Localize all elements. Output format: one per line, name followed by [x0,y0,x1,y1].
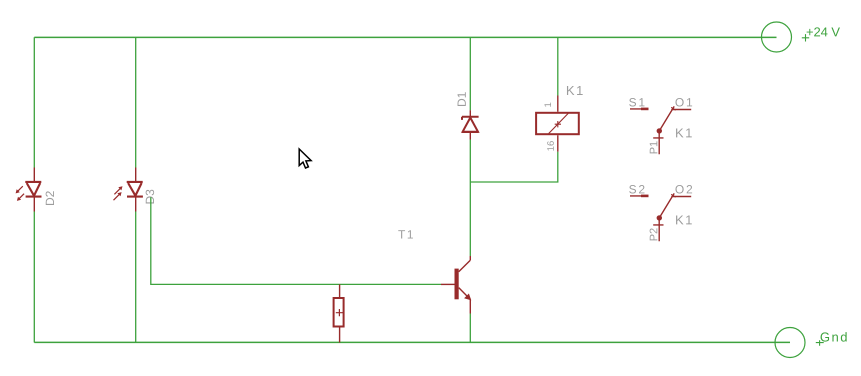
wire D2 anode [33,37,35,167]
supply Gnd label [821,332,847,342]
diode D1 [462,110,479,139]
label S2 [629,185,644,193]
label K1 contact 2 [676,215,692,224]
switch K1b lever [657,193,676,220]
supply Gnd origin cross [816,340,824,346]
switch O1 contact [671,109,691,111]
mouse cursor [299,149,311,168]
label K1 relay [567,86,583,95]
label O2 [675,185,692,193]
transistor T1 [441,256,471,314]
relay coil K1 [536,96,579,152]
wire relay pin1 from rail [557,37,559,95]
label K1 contact 1 [676,128,692,137]
label D3 [146,190,154,204]
wire emitter to Gnd rail [469,314,471,343]
supply +24V circle [762,22,792,52]
label D2 [46,191,54,205]
wire D1 to collector node [469,140,471,257]
wire relay pin16 to collector node [470,152,558,182]
switch S1 contact stub [630,108,649,110]
label S1 [629,98,644,106]
label T1 [398,230,413,238]
wire D1 top [469,37,471,110]
wire D3 anode [135,37,137,167]
wire D2 cathode [33,212,35,343]
supply +24V label [807,27,840,36]
label P2 [650,228,658,240]
pin 16 label [547,141,554,150]
supply Gnd circle [775,328,805,358]
pin 1 label [544,103,551,107]
label O1 [675,98,692,106]
label P1 [650,141,658,153]
switch P1 pole pin [653,131,663,154]
wire D3 cathode [135,212,137,343]
label D1 [458,92,466,106]
wire Gnd bottom rail [34,341,790,343]
switch O2 contact [671,196,691,198]
switch S2 contact stub [630,195,649,197]
switch K1a lever [657,106,676,133]
LED D2 [16,168,42,212]
resistor R1 [334,284,344,342]
switch P2 pole pin [653,218,663,241]
wire base net [151,197,441,284]
supply +24V origin cross [802,34,809,41]
LED D3 [114,168,143,212]
wire top +24V rail [34,36,776,38]
